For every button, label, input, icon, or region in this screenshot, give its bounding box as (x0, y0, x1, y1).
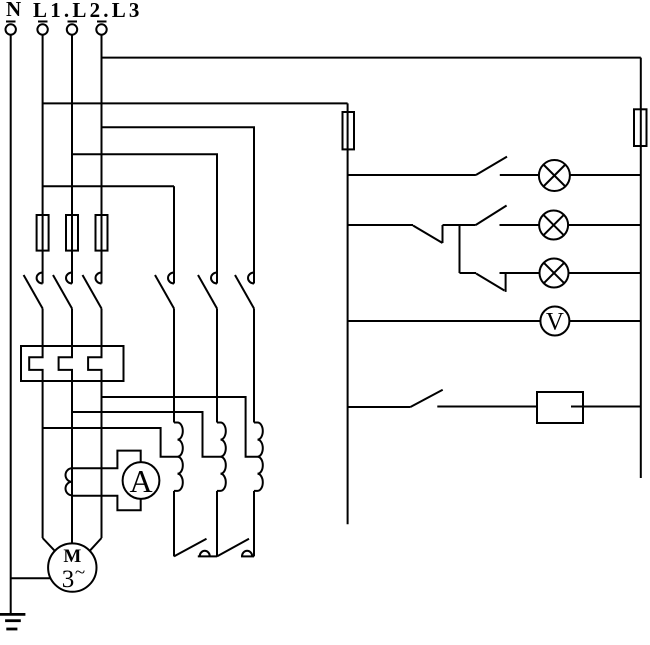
terminal L3 (96, 22, 106, 35)
svg-text:N: N (6, 0, 21, 21)
left control bus (347, 103, 349, 524)
svg-text:A: A (129, 463, 152, 499)
ammeter A (123, 462, 160, 499)
wire to lamp HL2 (500, 224, 540, 226)
star contact 2 (217, 539, 254, 557)
switch QS2 pole 3 (235, 187, 254, 423)
switch QS1 pole 1 (24, 273, 43, 309)
transfer switch fixed contact (442, 225, 444, 243)
wire lamp row 2 right (568, 224, 641, 226)
autotransformer winding T1 (174, 423, 183, 491)
ground (0, 614, 25, 629)
relay coil box (537, 392, 583, 423)
fuse FU5 (634, 109, 647, 146)
autotransformer winding T2 (217, 423, 226, 491)
wire voltmeter row left (348, 320, 541, 322)
wire lamp row 1 right (570, 174, 641, 176)
wire T3 bottom (253, 491, 255, 557)
wire L1 branch to start switch pole 1 (43, 185, 174, 187)
wire to lamp HL3 (500, 272, 541, 274)
transfer switch blade in (413, 226, 443, 244)
wire L1 vertical upper (42, 35, 44, 284)
fuse FU2 (66, 215, 78, 251)
wire L2 vertical upper (71, 35, 73, 284)
switch SA2 blade (476, 206, 507, 226)
wire T2 bottom (216, 491, 218, 557)
switch QS2 pole 1 (155, 186, 174, 422)
lamp HL1 (539, 160, 570, 191)
wire to lamp HL1 (500, 174, 539, 176)
switch SA1 (476, 157, 507, 175)
wire to relay coil (437, 406, 537, 408)
wire T1 bottom (173, 491, 175, 557)
wire phase 3 through overload heater (88, 309, 101, 539)
switch SA3 blade (476, 274, 504, 291)
wire ammeter top link (72, 451, 141, 469)
wire N vertical (10, 35, 12, 615)
fuse FU1 (37, 215, 49, 251)
thermal overload relay FR box (21, 346, 124, 381)
wire lamp row 1 left (348, 174, 476, 176)
wire transfer junction (443, 224, 476, 226)
lamp HL2 (539, 211, 568, 240)
current transformer on phase 2 (66, 468, 73, 495)
switch SA3 fixed contact (505, 273, 507, 292)
svg-text:~: ~ (75, 562, 85, 583)
star contact 1 (174, 539, 217, 557)
terminal L1 (37, 22, 47, 35)
wire relay row left (348, 406, 411, 408)
fuse FU4 (343, 112, 355, 149)
wire N to motor (11, 577, 51, 579)
wire phase 1 through overload heater (29, 309, 42, 539)
wire phase 2 through overload heater (59, 309, 72, 544)
wire relay row right (571, 406, 641, 408)
wire lamp row 2 left (348, 224, 413, 226)
switch QS1 pole 3 (83, 273, 102, 309)
lamp HL3 (540, 259, 569, 288)
svg-text:L1.L2.L3: L1.L2.L3 (33, 0, 143, 22)
switch QS2 pole 2 (198, 187, 217, 423)
wire L3 to right bus (102, 57, 641, 59)
terminal N (6, 22, 16, 35)
svg-text:3: 3 (62, 566, 75, 593)
wire ammeter bottom link (72, 496, 141, 511)
wire tap phase3 to T3 (102, 397, 258, 457)
wire phase3 to motor (90, 538, 102, 551)
voltmeter V (540, 307, 569, 336)
wire L3 branch to start switch pole 3 (102, 127, 255, 186)
wire voltmeter row right (569, 320, 640, 322)
fuse FU3 (96, 215, 108, 251)
motor M (48, 543, 96, 591)
terminal L2 (67, 22, 77, 35)
wire phase1 to motor (43, 538, 55, 551)
switch QS1 pole 2 (53, 273, 72, 309)
wire tap phase2 to T2 (72, 412, 221, 457)
wire tap phase1 to T1 (43, 428, 178, 457)
wire row 3 stub (460, 272, 477, 274)
switch SA4 (410, 390, 442, 407)
autotransformer winding T3 (254, 423, 263, 491)
svg-text:V: V (546, 309, 564, 336)
wire link row2 to row3 (459, 225, 461, 273)
wire L1 to left control bus (43, 102, 348, 104)
wire L2 branch to start switch pole 2 (72, 154, 217, 186)
wire lamp row 3 right (568, 272, 641, 274)
wire L3 vertical upper (101, 35, 103, 284)
right control bus (640, 58, 642, 478)
